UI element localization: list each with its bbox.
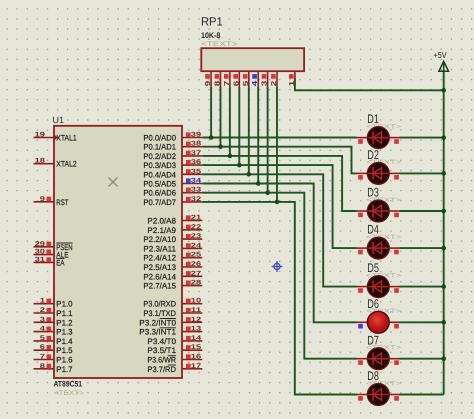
D8 anode lead <box>389 394 399 396</box>
svg-text:P1.2: P1.2 <box>56 318 73 327</box>
wire D6 anode to +5V rail <box>400 321 444 323</box>
svg-text:11: 11 <box>191 307 202 314</box>
svg-text:+5V: +5V <box>434 50 447 60</box>
svg-text:P1.0: P1.0 <box>56 300 73 309</box>
wire RP1 pin 4 down to P0.5 net <box>257 87 259 184</box>
svg-text:XTAL2: XTAL2 <box>56 160 77 169</box>
svg-text:36: 36 <box>191 159 202 166</box>
U1 pin 26 (P2.5/A13) lead <box>182 266 202 268</box>
D5 cathode pin marker <box>358 288 363 293</box>
RP1 pin 4 marker <box>252 74 257 79</box>
U1 pin 18 (XTAL2) lead <box>34 163 55 165</box>
U1 pin 38 marker <box>186 142 191 147</box>
svg-text:P0.3/AD3: P0.3/AD3 <box>143 161 176 170</box>
svg-text:3: 3 <box>40 316 46 323</box>
D5 anode lead <box>389 286 399 288</box>
svg-text:P3.0/RXD: P3.0/RXD <box>143 300 176 309</box>
wire D5 anode to +5V rail <box>400 286 444 288</box>
power terminal +5V <box>439 61 449 71</box>
RP1 pin 1 marker <box>289 74 294 79</box>
D5 anode pin marker <box>394 288 399 293</box>
svg-text:RP1: RP1 <box>201 15 223 29</box>
svg-text:10K-8: 10K-8 <box>201 31 221 40</box>
wire RP1 pin 6 down to P0.3 net <box>238 87 240 165</box>
svg-text:P0.0/AD0: P0.0/AD0 <box>143 134 176 143</box>
junction rail / D6 <box>441 320 446 325</box>
wire D4 anode to +5V rail <box>400 247 444 249</box>
no-model X marker inside U1 <box>109 178 118 187</box>
U1 pin 36 marker <box>186 160 191 165</box>
svg-text:P0.7/AD7: P0.7/AD7 <box>143 198 176 207</box>
D8 cathode lead <box>357 394 368 396</box>
svg-text:P3.3/INT1: P3.3/INT1 <box>139 328 176 337</box>
svg-text:4: 4 <box>40 326 46 333</box>
junction rail / RP1 pin1 wire <box>441 88 446 93</box>
svg-text:26: 26 <box>191 261 202 268</box>
RP1 pin 8 marker <box>215 74 220 79</box>
svg-text:<TEXT>: <TEXT> <box>54 390 84 397</box>
D1 anode pin marker <box>394 139 399 144</box>
junction RP1 pin 3 / P0.6 <box>265 190 270 195</box>
RP1 pin 5 marker <box>243 74 248 79</box>
junction RP1 pin 2 / P0.7 <box>275 200 280 205</box>
origin marker (blue crosshair) <box>272 261 283 272</box>
svg-text:AT89C51: AT89C51 <box>54 380 83 389</box>
U1 pin 2 unconnected marker <box>47 308 52 313</box>
svg-text:P1.1: P1.1 <box>56 309 73 318</box>
svg-text:22: 22 <box>191 224 202 231</box>
RP1 pin 2 lead <box>276 71 278 87</box>
svg-text:31: 31 <box>35 256 46 263</box>
U1 pin 38 (P0.1/AD1) lead <box>182 146 202 148</box>
U1 pin 32 (P0.7/AD7) lead <box>182 201 202 203</box>
D2 cathode pin marker <box>358 175 363 180</box>
wire net P0.1 to D2 <box>202 147 356 174</box>
U1 pin 16 marker <box>186 354 191 359</box>
D1 cathode pin marker <box>358 139 363 144</box>
U1 pin 32 marker <box>186 197 191 202</box>
svg-text:5: 5 <box>40 335 46 342</box>
svg-text:P0.4/AD4: P0.4/AD4 <box>143 170 176 179</box>
U1 pin 35 marker <box>186 169 191 174</box>
svg-text:P3.6/WR: P3.6/WR <box>147 356 176 365</box>
wire RP1 pin 3 down to P0.6 net <box>267 87 269 193</box>
XTAL1 clock arrow <box>54 135 59 140</box>
RP1 pin 3 marker <box>262 74 267 79</box>
svg-text:34: 34 <box>191 178 202 185</box>
RP1 pin 8 lead <box>220 71 222 87</box>
D8 cathode pin marker <box>358 396 363 401</box>
D7 anode pin marker <box>394 360 399 365</box>
wire RP1 pin 1 to +5V rail <box>295 78 444 90</box>
D3 anode lead <box>389 210 399 212</box>
wire D7 anode to +5V rail <box>400 358 444 360</box>
U1 pin 27 (P2.6/A14) lead <box>182 275 202 277</box>
D2 anode pin marker <box>394 175 399 180</box>
svg-text:<TEXT>: <TEXT> <box>201 41 238 48</box>
svg-text:39: 39 <box>191 132 202 139</box>
wire RP1 pin 8 down to P0.1 net <box>220 87 222 147</box>
D4 anode lead <box>389 247 399 249</box>
wire net P0.7 to D8 <box>202 202 356 395</box>
RP1 pin 2 marker <box>271 74 276 79</box>
U1 pin 31 unconnected marker <box>47 257 52 262</box>
U1 pin 5 (P1.4) lead <box>34 340 55 342</box>
svg-text:EA: EA <box>56 258 65 267</box>
svg-text:18: 18 <box>35 158 46 165</box>
svg-text:2: 2 <box>269 81 278 87</box>
svg-text:P0.2/AD2: P0.2/AD2 <box>143 152 176 161</box>
D5 cathode lead <box>357 286 368 288</box>
U1 pin 21 (P2.0/A8) lead <box>182 220 202 222</box>
U1 pin 21 marker <box>186 215 191 220</box>
U1 pin 19 (XTAL1) lead <box>34 137 55 139</box>
junction rail / D4 <box>441 246 446 251</box>
svg-text:32: 32 <box>191 196 202 203</box>
U1 pin 36 (P0.3/AD3) lead <box>182 164 202 166</box>
D7 cathode pin marker <box>358 360 363 365</box>
svg-text:16: 16 <box>191 354 202 361</box>
U1 pin 17 marker <box>186 364 191 369</box>
svg-text:33: 33 <box>191 187 202 194</box>
U1 pin 37 (P0.2/AD2) lead <box>182 155 202 157</box>
U1 pin 10 marker <box>186 299 191 304</box>
U1 pin 4 unconnected marker <box>47 327 52 332</box>
RP1 pin 7 marker <box>224 74 229 79</box>
wire net P0.6 to D7 <box>202 193 356 359</box>
svg-text:15: 15 <box>191 344 202 351</box>
D7 cathode lead <box>357 358 368 360</box>
U1 pin 4 (P1.3) lead <box>34 331 55 333</box>
RP1 pin 5 lead <box>248 71 250 87</box>
U1 pin 6 (P1.5) lead <box>34 349 55 351</box>
D2 anode lead <box>389 172 399 174</box>
svg-text:38: 38 <box>191 141 202 148</box>
D8 anode pin marker <box>394 396 399 401</box>
U1 pin 15 (P3.5/T1) lead <box>182 349 202 351</box>
U1 pin 13 (P3.3/INT1) lead <box>182 331 202 333</box>
wire net P0.3 to D4 <box>202 165 356 248</box>
U1 pin 22 marker <box>186 225 191 230</box>
svg-text:28: 28 <box>191 280 202 287</box>
svg-text:35: 35 <box>191 168 202 175</box>
svg-text:P1.3: P1.3 <box>56 328 73 337</box>
svg-text:1: 1 <box>40 298 46 305</box>
RP1 pin 9 marker <box>205 74 210 79</box>
D7 anode lead <box>389 358 399 360</box>
U1 pin 9 (RST) lead <box>34 201 55 203</box>
svg-text:13: 13 <box>191 326 202 333</box>
U1 pin 33 (P0.6/AD6) lead <box>182 192 202 194</box>
svg-text:P3.7/RD: P3.7/RD <box>147 365 176 374</box>
U1 pin 10 (P3.0/RXD) lead <box>182 303 202 305</box>
svg-text:5: 5 <box>241 81 250 87</box>
U1 pin 30 (ALE) lead <box>34 254 55 256</box>
U1 pin 3 unconnected marker <box>47 317 52 322</box>
+5V terminal pin <box>443 61 445 71</box>
U1 pin 16 (P3.6/WR) lead <box>182 359 202 361</box>
wire net P0.4 to D5 <box>202 174 356 286</box>
svg-text:12: 12 <box>191 316 202 323</box>
svg-text:P1.5: P1.5 <box>56 346 73 355</box>
svg-text:29: 29 <box>35 241 46 248</box>
D3 cathode lead <box>357 210 368 212</box>
svg-text:6: 6 <box>231 81 240 87</box>
wire RP1 pin 7 down to P0.2 net <box>229 87 231 156</box>
U1 pin 24 (P2.3/A11) lead <box>182 247 202 249</box>
RP1 pin 9 lead <box>210 71 212 87</box>
wire net P0.0 to D1 <box>202 137 356 139</box>
svg-text:P1.7: P1.7 <box>56 365 73 374</box>
wire D1 anode to +5V rail <box>400 137 444 139</box>
junction RP1 pin 5 / P0.4 <box>247 172 252 177</box>
U1 pin 8 unconnected marker <box>47 364 52 369</box>
junction RP1 pin 6 / P0.3 <box>237 163 242 168</box>
svg-text:8: 8 <box>213 81 222 87</box>
svg-text:8: 8 <box>40 363 46 370</box>
svg-text:21: 21 <box>191 215 202 222</box>
RP1 pin 3 lead <box>267 71 269 87</box>
svg-text:7: 7 <box>40 354 46 361</box>
svg-text:25: 25 <box>191 252 202 259</box>
D3 cathode pin marker <box>358 213 363 218</box>
U1 pin 6 unconnected marker <box>47 345 52 350</box>
junction RP1 pin 8 / P0.1 <box>218 144 223 149</box>
svg-text:9: 9 <box>203 81 212 87</box>
svg-text:23: 23 <box>191 233 202 240</box>
U1 pin 23 marker <box>186 234 191 239</box>
U1 pin 13 marker <box>186 327 191 332</box>
svg-text:U1: U1 <box>53 115 65 125</box>
U1 pin 7 unconnected marker <box>47 354 52 359</box>
svg-text:P2.4/A12: P2.4/A12 <box>143 254 176 263</box>
U1 pin 29 (PSEN) lead <box>34 246 55 248</box>
RP1 pin 1 lead <box>294 71 296 78</box>
U1 pin 5 unconnected marker <box>47 336 52 341</box>
svg-text:3: 3 <box>260 81 269 87</box>
svg-text:17: 17 <box>191 363 202 370</box>
svg-text:XTAL1: XTAL1 <box>56 134 77 143</box>
svg-text:37: 37 <box>191 150 202 157</box>
op: U1 AT89C51 microcontroller body <box>54 126 182 378</box>
junction rail / D7 <box>441 356 446 361</box>
svg-text:P3.4/T0: P3.4/T0 <box>147 337 176 346</box>
wire net P0.2 to D3 <box>202 156 356 211</box>
U1 pin 35 (P0.4/AD4) lead <box>182 173 202 175</box>
junction rail / D1 <box>441 135 446 140</box>
svg-text:P2.2/A10: P2.2/A10 <box>143 235 176 244</box>
U1 pin 34 (P0.5/AD5) lead <box>182 183 202 185</box>
U1 pin 11 (P3.1/TXD) lead <box>182 312 202 314</box>
U1 pin 28 (P2.7/A15) lead <box>182 285 202 287</box>
svg-text:P2.6/A14: P2.6/A14 <box>143 272 176 281</box>
svg-text:P2.0/A8: P2.0/A8 <box>147 217 176 226</box>
svg-text:4: 4 <box>250 81 259 87</box>
U1 pin 2 (P1.1) lead <box>34 312 55 314</box>
svg-text:P3.1/TXD: P3.1/TXD <box>143 309 176 318</box>
wire RP1 pin 2 down to P0.7 net <box>276 87 278 202</box>
svg-text:14: 14 <box>191 335 202 342</box>
svg-text:P0.5/AD5: P0.5/AD5 <box>143 180 176 189</box>
resistor pack RP1 body <box>201 48 304 71</box>
junction RP1 pin 7 / P0.2 <box>228 154 233 159</box>
junction rail / D2 <box>441 171 446 176</box>
U1 pin 27 marker <box>186 271 191 276</box>
U1 pin 24 marker <box>186 243 191 248</box>
U1 pin 26 marker <box>186 262 191 267</box>
svg-text:P1.4: P1.4 <box>56 337 73 346</box>
svg-text:27: 27 <box>191 270 202 277</box>
U1 pin 23 (P2.2/A10) lead <box>182 238 202 240</box>
svg-text:RST: RST <box>56 198 68 207</box>
svg-text:P2.5/A13: P2.5/A13 <box>143 263 176 272</box>
U1 pin 22 (P2.1/A9) lead <box>182 229 202 231</box>
U1 pin 15 marker <box>186 345 191 350</box>
svg-text:19: 19 <box>35 132 46 139</box>
U1 pin 1 (P1.0) lead <box>34 303 55 305</box>
svg-text:9: 9 <box>40 196 46 203</box>
svg-text:P2.3/A11: P2.3/A11 <box>143 244 176 253</box>
svg-text:P3.2/INT0: P3.2/INT0 <box>139 318 176 327</box>
U1 pin 9 unconnected marker <box>47 197 52 202</box>
U1 pin 28 marker <box>186 281 191 286</box>
svg-text:P0.1/AD1: P0.1/AD1 <box>143 143 176 152</box>
RP1 pin 4 lead <box>257 71 259 87</box>
U1 pin 7 (P1.6) lead <box>34 359 55 361</box>
D3 anode pin marker <box>394 213 399 218</box>
wire D2 anode to +5V rail <box>400 172 444 174</box>
wire RP1 pin 9 down to P0.0 net <box>210 87 212 138</box>
U1 pin 33 marker <box>186 188 191 193</box>
U1 pin 30 unconnected marker <box>47 250 52 255</box>
junction rail / D3 <box>441 209 446 214</box>
svg-text:24: 24 <box>191 242 202 249</box>
D4 cathode lead <box>357 247 368 249</box>
D4 anode pin marker <box>394 250 399 255</box>
wire D3 anode to +5V rail <box>400 210 444 212</box>
D2 cathode lead <box>357 172 368 174</box>
D1 cathode lead <box>357 137 368 139</box>
svg-text:P2.7/A15: P2.7/A15 <box>143 282 176 291</box>
svg-text:P3.5/T1: P3.5/T1 <box>147 346 176 355</box>
junction RP1 pin 9 / P0.0 <box>209 135 214 140</box>
svg-text:7: 7 <box>222 81 231 87</box>
U1 pin 1 unconnected marker <box>47 299 52 304</box>
U1 pin 17 (P3.7/RD) lead <box>182 368 202 370</box>
wire RP1 pin 5 down to P0.4 net <box>248 87 250 174</box>
RP1 pin 7 lead <box>229 71 231 87</box>
U1 pin 3 (P1.2) lead <box>34 321 55 323</box>
svg-text:6: 6 <box>40 344 46 351</box>
U1 pin 25 (P2.4/A12) lead <box>182 257 202 259</box>
U1 pin 8 (P1.7) lead <box>34 368 55 370</box>
D6 cathode lead <box>357 321 368 323</box>
junction RP1 pin 4 / P0.5 <box>256 181 261 186</box>
U1 pin 29 unconnected marker <box>47 242 52 247</box>
svg-text:P1.6: P1.6 <box>56 356 73 365</box>
D6 anode pin marker <box>394 324 399 329</box>
D6 cathode pin marker <box>358 324 363 329</box>
wire net P0.5 to D6 <box>202 184 356 323</box>
svg-text:30: 30 <box>35 249 46 256</box>
U1 pin 34 marker <box>186 178 191 183</box>
svg-text:10: 10 <box>191 298 202 305</box>
U1 pin 14 (P3.4/T0) lead <box>182 340 202 342</box>
U1 pin 37 marker <box>186 151 191 156</box>
junction rail / D5 <box>441 284 446 289</box>
RP1 pin 6 lead <box>238 71 240 87</box>
svg-text:2: 2 <box>40 307 46 314</box>
U1 pin 11 marker <box>186 308 191 313</box>
wire D8 anode to +5V rail <box>400 394 444 396</box>
D6 anode lead <box>389 321 399 323</box>
D1 anode lead <box>389 137 399 139</box>
U1 pin 14 marker <box>186 336 191 341</box>
U1 pin 39 marker <box>186 132 191 137</box>
U1 pin 39 (P0.0/AD0) lead <box>182 137 202 139</box>
RP1 pin 6 marker <box>233 74 238 79</box>
svg-text:P0.6/AD6: P0.6/AD6 <box>143 189 176 198</box>
U1 pin 31 (EA) lead <box>34 261 55 263</box>
svg-text:P2.1/A9: P2.1/A9 <box>147 226 176 235</box>
wire +5V rail vertical <box>443 71 445 395</box>
U1 pin 25 marker <box>186 253 191 258</box>
U1 pin 12 marker <box>186 317 191 322</box>
svg-text:1: 1 <box>287 81 296 87</box>
U1 pin 12 (P3.2/INT0) lead <box>182 321 202 323</box>
D4 cathode pin marker <box>358 250 363 255</box>
